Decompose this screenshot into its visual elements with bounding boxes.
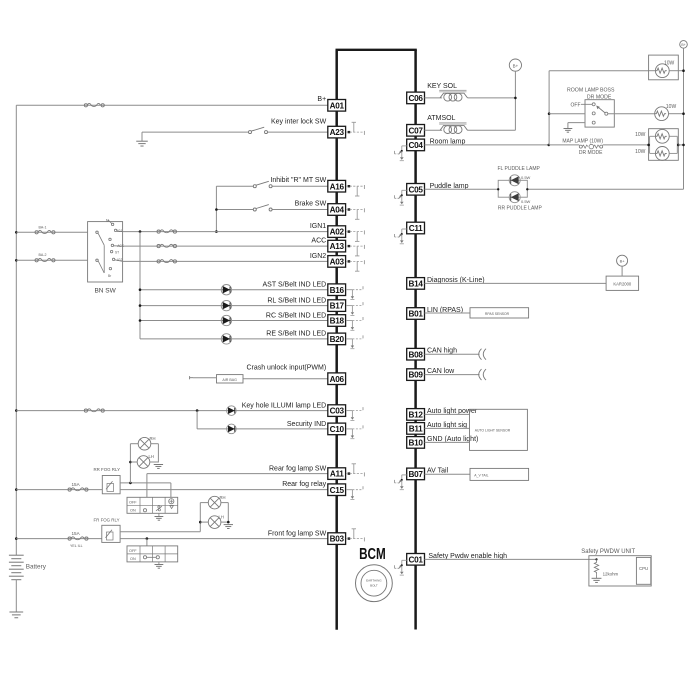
svg-text:B08: B08 — [409, 350, 424, 359]
svg-text:A16: A16 — [330, 182, 345, 191]
svg-text:YEL ILL: YEL ILL — [70, 544, 83, 548]
svg-text:CAN low: CAN low — [427, 368, 455, 375]
svg-text:B+: B+ — [317, 96, 326, 103]
svg-text:A11: A11 — [330, 470, 344, 479]
svg-text:ACC: ACC — [311, 238, 326, 245]
svg-text:RPAS SENSOR: RPAS SENSOR — [485, 312, 510, 316]
svg-text:Crash unlock input(PWM): Crash unlock input(PWM) — [246, 365, 326, 372]
svg-text:RH: RH — [220, 495, 226, 500]
svg-text:Inhibit "R" MT SW: Inhibit "R" MT SW — [270, 177, 326, 184]
svg-text:FR FOG RLY: FR FOG RLY — [94, 518, 120, 523]
svg-text:C05: C05 — [409, 185, 424, 194]
svg-text:DR MODE: DR MODE — [579, 150, 603, 156]
svg-text:Auto light sig: Auto light sig — [427, 422, 467, 429]
svg-text:Rear fog relay: Rear fog relay — [282, 481, 326, 488]
svg-text:AST S/Belt IND LED: AST S/Belt IND LED — [263, 282, 327, 289]
svg-text:M: M — [106, 219, 109, 223]
svg-text:OFF: OFF — [129, 501, 137, 505]
svg-text:A13: A13 — [330, 242, 345, 251]
svg-text:C04: C04 — [409, 141, 424, 150]
svg-text:A_V TAIL: A_V TAIL — [474, 474, 488, 478]
svg-text:RL S/Belt IND LED: RL S/Belt IND LED — [267, 297, 326, 304]
svg-text:A03: A03 — [330, 258, 345, 267]
svg-text:A06: A06 — [330, 375, 345, 384]
svg-text:AIR BAG: AIR BAG — [222, 378, 237, 382]
svg-text:C03: C03 — [330, 407, 345, 416]
svg-text:B12: B12 — [409, 411, 424, 420]
svg-text:0.5W: 0.5W — [521, 175, 531, 180]
svg-text:RE S/Belt IND LED: RE S/Belt IND LED — [266, 331, 326, 338]
svg-text:10W: 10W — [664, 61, 675, 67]
svg-text:10W: 10W — [635, 149, 646, 155]
svg-text:Rear fog lamp SW: Rear fog lamp SW — [269, 466, 327, 473]
svg-text:15A: 15A — [72, 531, 81, 536]
svg-text:A04: A04 — [330, 206, 345, 215]
svg-text:12kohm: 12kohm — [603, 572, 619, 577]
svg-text:C10: C10 — [330, 425, 345, 434]
svg-text:CAN high: CAN high — [427, 348, 457, 355]
svg-text:B17: B17 — [330, 302, 345, 311]
svg-text:B09: B09 — [409, 371, 424, 380]
svg-text:ST: ST — [115, 250, 119, 254]
svg-text:B20: B20 — [330, 335, 345, 344]
svg-text:AUTO LIGHT SENSOR: AUTO LIGHT SENSOR — [475, 428, 511, 432]
svg-text:IGN1: IGN1 — [310, 223, 326, 230]
svg-text:BOLT: BOLT — [370, 584, 378, 588]
svg-text:B+: B+ — [681, 43, 685, 47]
svg-text:Security IND: Security IND — [287, 421, 326, 428]
svg-text:AV Tail: AV Tail — [427, 467, 449, 474]
svg-text:B18: B18 — [330, 317, 345, 326]
svg-text:B+: B+ — [513, 63, 519, 68]
svg-text:RC S/Belt IND LED: RC S/Belt IND LED — [266, 312, 326, 319]
svg-text:A01: A01 — [330, 101, 345, 110]
svg-text:0.5W: 0.5W — [521, 199, 531, 204]
svg-text:BA-1: BA-1 — [39, 226, 47, 230]
svg-text:B11: B11 — [409, 425, 423, 434]
svg-text:FL PUDDLE LAMP: FL PUDDLE LAMP — [498, 166, 541, 172]
svg-text:KEY SOL: KEY SOL — [427, 83, 457, 90]
svg-text:B+: B+ — [620, 259, 626, 264]
svg-text:RH: RH — [150, 436, 156, 441]
svg-text:BN SW: BN SW — [94, 288, 116, 295]
svg-text:15A: 15A — [72, 482, 81, 487]
svg-text:CPU: CPU — [639, 566, 648, 571]
svg-text:C11: C11 — [409, 224, 423, 233]
svg-text:B10: B10 — [409, 439, 424, 448]
svg-text:B14: B14 — [409, 280, 424, 289]
svg-text:IG1: IG1 — [117, 229, 122, 233]
svg-text:C15: C15 — [330, 486, 345, 495]
svg-text:B03: B03 — [330, 535, 345, 544]
svg-text:LH: LH — [149, 454, 154, 459]
svg-text:Key hole ILLUMI lamp LED: Key hole ILLUMI lamp LED — [242, 402, 326, 409]
svg-text:Key inter lock SW: Key inter lock SW — [271, 119, 327, 126]
svg-text:A02: A02 — [330, 228, 345, 237]
svg-text:RR PUDDLE LAMP: RR PUDDLE LAMP — [498, 205, 543, 211]
svg-text:Safety PWDW UNIT: Safety PWDW UNIT — [581, 549, 635, 555]
svg-text:OFF: OFF — [571, 103, 581, 109]
svg-text:IG2: IG2 — [117, 258, 122, 262]
svg-text:ON: ON — [130, 509, 136, 513]
svg-text:C06: C06 — [409, 94, 424, 103]
svg-text:EARTHING: EARTHING — [366, 579, 382, 583]
svg-text:BA-2: BA-2 — [39, 253, 47, 257]
svg-text:10W: 10W — [635, 132, 646, 138]
svg-text:Battery: Battery — [26, 564, 47, 571]
svg-text:10W: 10W — [666, 104, 677, 110]
svg-text:RR FOG RLY: RR FOG RLY — [94, 467, 121, 472]
svg-text:B01: B01 — [409, 310, 424, 319]
svg-text:B07: B07 — [409, 470, 424, 479]
svg-text:Brake SW: Brake SW — [295, 200, 327, 207]
svg-text:MAP LAMP (10W): MAP LAMP (10W) — [562, 139, 603, 145]
svg-text:ATMSOL: ATMSOL — [427, 115, 455, 122]
svg-text:C01: C01 — [409, 555, 424, 564]
svg-text:C07: C07 — [409, 126, 424, 135]
svg-text:Front fog lamp SW: Front fog lamp SW — [268, 531, 327, 538]
svg-text:ON: ON — [130, 557, 136, 561]
svg-text:IGN2: IGN2 — [310, 253, 326, 260]
svg-text:BCM: BCM — [359, 546, 386, 563]
svg-text:A23: A23 — [330, 128, 345, 137]
svg-text:GND (Auto light): GND (Auto light) — [427, 436, 478, 443]
svg-text:LH: LH — [219, 514, 224, 519]
svg-text:ROOM LAMP BOSS: ROOM LAMP BOSS — [567, 88, 615, 94]
svg-text:B16: B16 — [330, 286, 345, 295]
svg-text:OFF: OFF — [129, 549, 137, 553]
svg-text:KAR2000: KAR2000 — [613, 282, 632, 287]
